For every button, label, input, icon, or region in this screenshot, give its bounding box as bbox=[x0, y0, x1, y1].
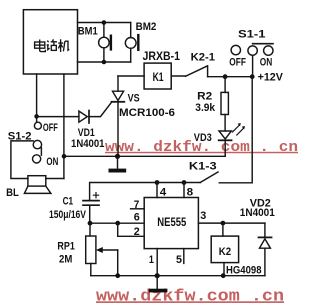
capacitor C1 bbox=[83, 200, 99, 202]
ground rail bbox=[64, 155, 225, 157]
svg-text:OFF: OFF bbox=[229, 56, 246, 68]
svg-text:K2-1: K2-1 bbox=[191, 52, 215, 64]
wire K1 left to SCR bbox=[118, 75, 144, 77]
svg-text:S1-1: S1-1 bbox=[238, 28, 266, 40]
svg-text:HG4098: HG4098 bbox=[226, 265, 262, 277]
node rail/stub2 bbox=[62, 154, 67, 159]
switch K1-3 bbox=[200, 172, 218, 183]
node K2 bottom bbox=[221, 273, 226, 278]
telephone box 电话机 bbox=[23, 10, 77, 74]
svg-text:VS: VS bbox=[128, 93, 140, 105]
node pin2 branch bbox=[115, 221, 120, 226]
node BM1 top bbox=[102, 20, 107, 25]
potentiometer RP1 bbox=[89, 223, 91, 236]
svg-text:K1-3: K1-3 bbox=[189, 161, 217, 173]
pin1 stub bbox=[156, 249, 158, 276]
svg-text:VD3: VD3 bbox=[194, 132, 212, 144]
wire pin2 bbox=[118, 223, 145, 236]
node C1/RP1 bbox=[88, 221, 93, 226]
svg-text:K1: K1 bbox=[153, 70, 164, 84]
svg-text:S1-2: S1-2 bbox=[8, 131, 32, 143]
svg-text:BM1: BM1 bbox=[78, 25, 98, 37]
svg-text:K2: K2 bbox=[219, 246, 231, 258]
thyristor VS MCR100-6 bbox=[117, 76, 119, 91]
pin5 stub bbox=[183, 249, 185, 264]
node BM1 bottom bbox=[102, 60, 107, 65]
V+ rail to NE555 bbox=[90, 183, 201, 201]
svg-text:3: 3 bbox=[200, 210, 206, 222]
wire S1-2 pole to left loop bbox=[11, 141, 33, 179]
svg-text:R2: R2 bbox=[197, 91, 212, 103]
switch K2-1 bbox=[186, 66, 208, 77]
svg-text:ON: ON bbox=[260, 56, 273, 68]
svg-text:BL: BL bbox=[6, 187, 19, 199]
relay coil K2 bbox=[222, 223, 224, 236]
relay coil K1 bbox=[144, 63, 171, 89]
wire pin6 bbox=[90, 222, 145, 224]
node SCR cathode/ground bbox=[115, 154, 120, 159]
svg-text:1: 1 bbox=[149, 254, 154, 266]
svg-text:C1: C1 bbox=[63, 195, 74, 207]
wire bottom rail from phone to mics bbox=[78, 61, 131, 63]
svg-text:2: 2 bbox=[134, 226, 140, 238]
microphone BM1 bbox=[103, 23, 105, 63]
bottom rail bbox=[91, 275, 265, 277]
pin8 stub bbox=[183, 183, 185, 198]
node K2 top bbox=[221, 221, 226, 226]
svg-text:1N4001: 1N4001 bbox=[240, 207, 275, 219]
wire phone stub2 down (crosses VD1 wire, to ground rail, to speaker) bbox=[63, 74, 65, 179]
diode VD2 1N4001 bbox=[264, 223, 266, 237]
svg-text:MCR100-6: MCR100-6 bbox=[119, 107, 175, 119]
wire pin7 stub bbox=[131, 208, 145, 210]
ground bbox=[117, 156, 119, 168]
svg-text:NE555: NE555 bbox=[157, 217, 186, 229]
svg-text:150μ/16V: 150μ/16V bbox=[49, 209, 87, 221]
wire VD1 anode bbox=[37, 116, 79, 118]
svg-text:ON: ON bbox=[46, 156, 58, 168]
svg-text:6: 6 bbox=[134, 212, 140, 224]
node pin1/ground bbox=[155, 273, 160, 278]
svg-text:7: 7 bbox=[134, 199, 140, 211]
svg-text:+12V: +12V bbox=[258, 71, 284, 83]
wire pin3 bbox=[198, 222, 265, 224]
LED arrows bbox=[233, 125, 244, 135]
node R2 branch bbox=[223, 74, 228, 79]
switch S1-1 bbox=[231, 45, 240, 54]
svg-text:JRXB-1: JRXB-1 bbox=[143, 51, 181, 63]
node stub1/VD1 junction bbox=[34, 114, 39, 119]
svg-text:8: 8 bbox=[187, 187, 194, 199]
svg-text:OFF: OFF bbox=[43, 122, 58, 134]
switch S1-2 bbox=[34, 122, 41, 129]
svg-text:2M: 2M bbox=[59, 253, 72, 265]
ground bottom bbox=[156, 276, 158, 289]
label 电话机 (drawn strokes) bbox=[35, 39, 70, 52]
node pin4 bbox=[155, 180, 160, 185]
diode VD1 1N4001 bbox=[79, 111, 87, 122]
wire top rail from phone to mics bbox=[78, 22, 131, 24]
svg-text:BM2: BM2 bbox=[136, 21, 157, 33]
svg-text:5: 5 bbox=[176, 254, 182, 266]
pin4 stub bbox=[156, 183, 158, 198]
wire phone stub1 down bbox=[36, 74, 38, 116]
resistor R2 bbox=[224, 77, 226, 93]
wire K2-1 to +12V node bbox=[208, 76, 253, 78]
svg-text:4: 4 bbox=[160, 187, 167, 199]
speaker BL bbox=[28, 176, 46, 186]
wire speaker right up to rail bbox=[46, 178, 64, 180]
svg-text:3.9k: 3.9k bbox=[195, 102, 216, 114]
IC NE555 bbox=[144, 198, 198, 249]
LED VD3 bbox=[219, 131, 231, 139]
svg-text:www.dzkfw.com .cn: www.dzkfw.com .cn bbox=[96, 286, 284, 305]
node pin8 bbox=[182, 180, 187, 185]
svg-text:RP1: RP1 bbox=[57, 241, 74, 253]
node RP1 wiper bbox=[115, 273, 120, 278]
+12V rail down bbox=[219, 77, 252, 183]
wire VD1 to SCR gate bbox=[89, 102, 112, 116]
microphone BM2 bbox=[130, 23, 132, 63]
wire K1 right bbox=[171, 75, 185, 77]
svg-text:1N4001: 1N4001 bbox=[71, 138, 105, 150]
node +12V bbox=[250, 74, 255, 79]
